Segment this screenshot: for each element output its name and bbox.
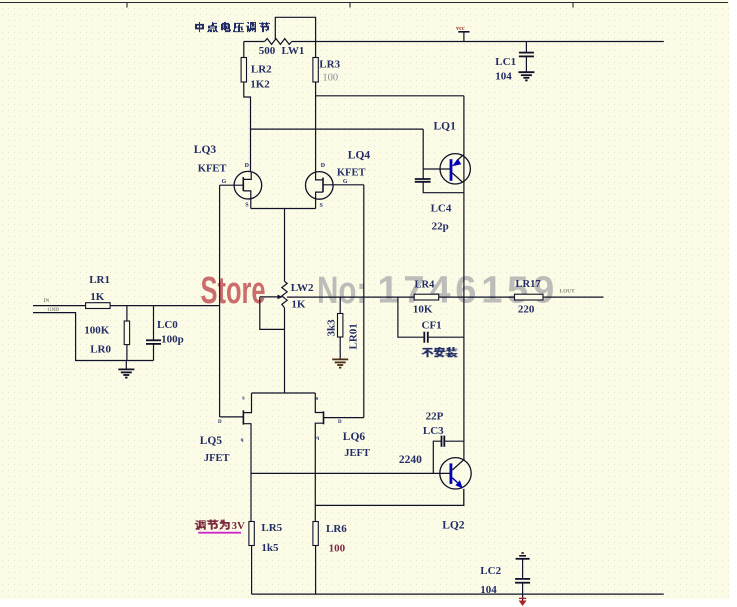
svg-text:LQ2: LQ2	[442, 520, 465, 532]
label CF1	[422, 320, 442, 332]
wire bottom rail	[252, 593, 664, 595]
resistor LR17 220	[515, 294, 544, 300]
svg-text:500: 500	[259, 45, 276, 57]
svg-text:JEFT: JEFT	[344, 448, 370, 459]
label GND	[48, 307, 60, 313]
wire LQ1 base	[423, 168, 450, 170]
wire node B branch	[316, 95, 464, 97]
label LR3	[319, 59, 340, 71]
svg-text:G: G	[343, 179, 348, 185]
label LR2	[251, 64, 272, 76]
wire node A branch	[251, 129, 424, 169]
resistor LR6 100	[313, 522, 318, 546]
label KFET LQ4	[337, 168, 366, 179]
label LC1	[495, 56, 516, 68]
power VCC symbol	[456, 25, 470, 42]
label LQ1	[434, 121, 457, 133]
transistor LQ4 KFET	[306, 172, 364, 209]
ground LC2 inverted	[516, 553, 530, 578]
label 1k5	[261, 542, 279, 554]
transistor LQ2 2240	[440, 458, 471, 506]
pin d LQ6	[338, 420, 342, 425]
svg-text:LC2: LC2	[480, 565, 501, 577]
label 中点电压调节	[195, 22, 270, 32]
capacitor LC0 100p	[146, 340, 161, 344]
svg-text:22P: 22P	[426, 411, 444, 423]
label 100K	[84, 325, 110, 337]
label LQ6	[343, 431, 366, 443]
wire LQ4 gate vertical	[363, 185, 365, 418]
label LQ4	[348, 150, 371, 162]
label 22p LC4	[432, 221, 449, 233]
svg-text:D: D	[218, 420, 222, 425]
label 1K LW2	[291, 299, 306, 311]
label LR17	[516, 279, 541, 290]
svg-text:1K2: 1K2	[250, 79, 270, 91]
label LOUT	[560, 289, 576, 295]
label 100p	[161, 334, 184, 346]
pin S LQ3	[245, 203, 249, 209]
svg-text:LQ1: LQ1	[434, 121, 457, 133]
svg-text:G: G	[222, 179, 227, 185]
svg-text:JFET: JFET	[204, 453, 230, 464]
resistor LR01 3k3	[338, 314, 343, 338]
label LR1	[89, 274, 110, 286]
resistor LR4 10K	[414, 294, 439, 300]
svg-text:100p: 100p	[161, 334, 184, 346]
svg-text:LQ5: LQ5	[200, 435, 223, 447]
pin G LQ3	[222, 179, 227, 185]
capacitor LC2 104	[515, 579, 530, 583]
label LR0	[90, 344, 111, 356]
svg-text:100: 100	[329, 543, 346, 555]
wire LQ3 gate vertical	[219, 185, 221, 417]
svg-text:104: 104	[480, 584, 497, 596]
label LR4	[415, 280, 436, 291]
label 220 LR17	[518, 304, 535, 316]
wire output rail	[287, 296, 604, 298]
svg-text:No:: No:	[317, 270, 366, 312]
wire VCC rail	[244, 41, 664, 43]
svg-text:D: D	[245, 163, 250, 169]
svg-text:LC4: LC4	[431, 203, 452, 215]
ground LR01	[332, 359, 348, 367]
svg-text:1K: 1K	[291, 299, 306, 311]
svg-text:1k5: 1k5	[261, 542, 279, 554]
svg-text:LR2: LR2	[251, 64, 272, 76]
label 104 LC1	[495, 71, 512, 83]
svg-text:22p: 22p	[432, 221, 449, 233]
svg-text:LC0: LC0	[157, 319, 178, 331]
svg-text:LOUT: LOUT	[560, 289, 576, 295]
wire LR01 top	[339, 297, 341, 313]
pin g LQ5	[241, 438, 244, 443]
label LC3	[423, 425, 444, 437]
potentiometer LW1 zigzag 500	[265, 39, 292, 45]
label LQ2	[442, 520, 465, 532]
svg-text:2240: 2240	[399, 454, 422, 466]
svg-text:vcc: vcc	[456, 25, 465, 32]
label 100 LR6	[329, 543, 346, 555]
label 1K2	[250, 79, 270, 91]
pin D LQ3	[245, 163, 250, 169]
label 104 LC2	[480, 584, 497, 596]
svg-text:100K: 100K	[84, 325, 110, 337]
wire LR01 bottom	[339, 337, 341, 359]
svg-text:q: q	[241, 438, 244, 443]
svg-text:LR17: LR17	[516, 279, 541, 290]
wire right vertical	[463, 96, 465, 460]
power symbol red bottom	[519, 598, 527, 606]
svg-text:LR5: LR5	[261, 522, 282, 534]
svg-text:LW1: LW1	[282, 45, 305, 57]
transistor LQ6 JEFT	[315, 393, 364, 522]
svg-text:LR1: LR1	[89, 274, 110, 286]
frame border top	[0, 3, 728, 8]
svg-text:q: q	[316, 436, 319, 441]
wire LQ2 base line	[251, 472, 450, 474]
svg-text:CF1: CF1	[422, 320, 442, 332]
wire LC0 stem	[153, 306, 155, 361]
wire LR0 top	[126, 306, 128, 321]
label 500 LW1	[259, 45, 305, 57]
label 调节为 3V	[195, 520, 245, 534]
resistor LR0 100K	[124, 321, 129, 345]
label 3k3 rotated	[326, 319, 338, 337]
wire LC3 right	[445, 440, 464, 442]
svg-text:3k3: 3k3	[326, 319, 338, 337]
transistor LQ1	[440, 154, 470, 184]
wire LR0 bottom	[126, 345, 128, 361]
svg-text:10K: 10K	[413, 304, 433, 316]
wire LR3 bottom	[315, 82, 317, 172]
label KFET LQ3	[198, 164, 227, 175]
svg-text:LW2: LW2	[291, 282, 314, 294]
wire LW2 bottom stem	[284, 308, 286, 393]
watermark Store No: 1746159	[201, 269, 560, 312]
pin s LQ5	[242, 394, 245, 401]
wire GND stub	[33, 313, 154, 361]
svg-text:KFET: KFET	[337, 168, 366, 179]
wire LR6 bottom	[315, 546, 317, 595]
potentiometer LW2 1K zigzag	[282, 281, 287, 308]
resistor LR2 1K2	[241, 58, 246, 83]
pin d LQ5	[218, 420, 222, 425]
label 2240	[399, 454, 422, 466]
label LQ5	[200, 435, 223, 447]
wire IN line	[33, 305, 220, 307]
label LW2	[291, 282, 314, 294]
capacitor LC3 22P	[442, 436, 445, 447]
svg-text:D: D	[321, 163, 326, 169]
label 100 LR3	[322, 73, 338, 84]
label LR6	[326, 523, 347, 535]
label 10K	[413, 304, 433, 316]
pin G LQ4	[343, 179, 348, 185]
wire JFET source rail	[252, 392, 316, 394]
svg-text:Store: Store	[201, 269, 266, 311]
svg-text:D: D	[338, 420, 342, 425]
svg-text:LR6: LR6	[326, 523, 347, 535]
label LR5	[261, 522, 282, 534]
wire LR5 bottom	[251, 546, 253, 595]
svg-text:LQ4: LQ4	[348, 150, 371, 162]
wire LR2 bottom jog	[244, 82, 251, 172]
label LC0	[157, 319, 178, 331]
wire LC2 stem	[522, 583, 524, 601]
label 不安装	[422, 347, 458, 357]
pin g LQ6	[316, 436, 319, 441]
svg-text:3V: 3V	[232, 520, 246, 532]
wire LW1 top loop	[275, 17, 315, 57]
resistor LR3 100	[313, 58, 318, 83]
pin D LQ4	[321, 163, 326, 169]
wire LR2 top	[243, 42, 245, 58]
svg-text:1K: 1K	[90, 291, 105, 303]
label 22P	[426, 411, 444, 423]
label 1K LR1	[90, 291, 105, 303]
svg-text:104: 104	[495, 71, 512, 83]
svg-text:LR0: LR0	[90, 344, 111, 356]
svg-text:LQ3: LQ3	[194, 144, 217, 156]
svg-text:IN: IN	[44, 298, 50, 304]
label JFET	[204, 453, 230, 464]
ground input	[118, 361, 134, 378]
svg-text:LR01: LR01	[347, 323, 359, 349]
resistor LR1 1K	[86, 303, 111, 309]
label LC2	[480, 565, 501, 577]
transistor LQ5 JFET	[220, 393, 252, 522]
resistor LR5 1k5	[249, 522, 254, 546]
label JEFT	[344, 448, 370, 459]
capacitor LC4 22p	[415, 179, 431, 182]
wire LW2 wiper loop	[260, 295, 285, 330]
wire LC3 left	[433, 441, 441, 473]
svg-text:LC1: LC1	[495, 56, 516, 68]
svg-text:100: 100	[322, 73, 338, 84]
wire source join	[251, 209, 316, 282]
svg-text:LR4: LR4	[415, 280, 436, 291]
wire LQ2 emitter line	[315, 504, 464, 506]
ground LC1	[518, 72, 534, 80]
label LC4	[431, 203, 452, 215]
pin S LQ4	[320, 203, 324, 209]
svg-text:KFET: KFET	[198, 164, 227, 175]
wire CF1 branch	[398, 297, 464, 337]
svg-text:LC3: LC3	[423, 425, 444, 437]
capacitor CF1	[424, 332, 428, 343]
svg-text:LQ6: LQ6	[343, 431, 366, 443]
wire LC4 stem	[423, 169, 464, 193]
capacitor LC1 104	[519, 53, 534, 57]
pin s LQ6	[316, 395, 319, 402]
svg-text:220: 220	[518, 304, 535, 316]
label LQ3	[194, 144, 217, 156]
label IN	[44, 298, 50, 304]
svg-text:LR3: LR3	[319, 59, 340, 71]
wire LC1 stem	[525, 42, 527, 72]
label LR01 rotated	[347, 323, 359, 349]
transistor LQ3 KFET	[220, 171, 262, 208]
